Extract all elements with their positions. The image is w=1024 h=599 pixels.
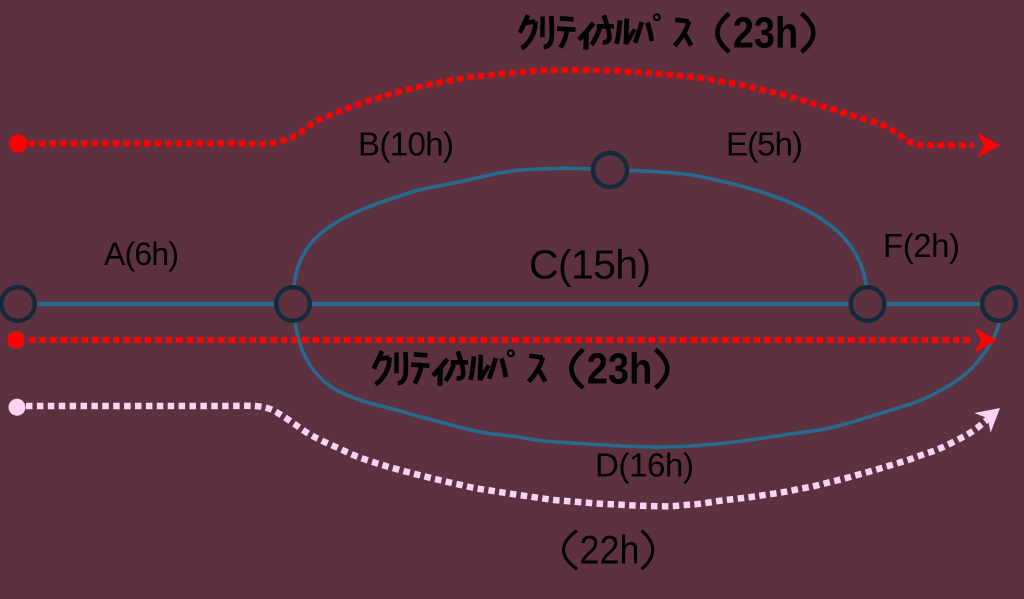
start dot of middle red line [8,332,25,349]
svg-text:22h: 22h [580,528,640,572]
svg-text:23h: 23h [587,346,653,394]
svg-text:E(5h): E(5h) [726,126,803,163]
fullwidth open paren bold [717,14,729,53]
katakana te [560,16,574,22]
katakana ha [635,22,642,43]
svg-text:B(10h): B(10h) [358,126,454,163]
handakuten circle [654,14,660,20]
katakana ri [540,17,545,38]
katakana ku [520,15,528,33]
critical path top red dotted line [18,70,974,145]
title 1: kuritikaru pasu (23h), top [520,14,814,53]
katakana ka [597,24,614,29]
wire A-C-F horizontal blue line [18,302,999,306]
wire B-E upper blue curve [293,168,868,303]
title 2: kuritikaru pasu (23h), middle [374,350,668,389]
pink dotted path [26,406,993,507]
label (22h) with fullwidth parens [564,531,653,570]
svg-text:C(15h): C(15h) [529,242,651,288]
katakana su [675,20,689,22]
start dot of top red line [9,135,27,153]
katakana ru [616,20,620,44]
wire D lower blue curve [293,304,999,448]
katakana small i [579,23,594,40]
arrowhead of middle red line [974,327,997,353]
node 2 [276,287,310,321]
node 1 (far left) [1,287,35,321]
svg-text:A(6h): A(6h) [104,236,179,272]
node 4 [851,287,885,321]
start dot of pink line [9,399,26,416]
fullwidth close paren bold [801,14,813,53]
svg-text:F(2h): F(2h) [883,227,960,264]
arrowhead of top red line [977,133,1000,159]
svg-text:D(16h): D(16h) [595,447,694,484]
critical path middle red dotted line [29,337,970,343]
node 3 (top) [593,153,627,187]
arrowhead of pink line [974,398,1008,432]
node 5 (far right) [982,287,1016,321]
svg-text:23h: 23h [733,10,799,58]
